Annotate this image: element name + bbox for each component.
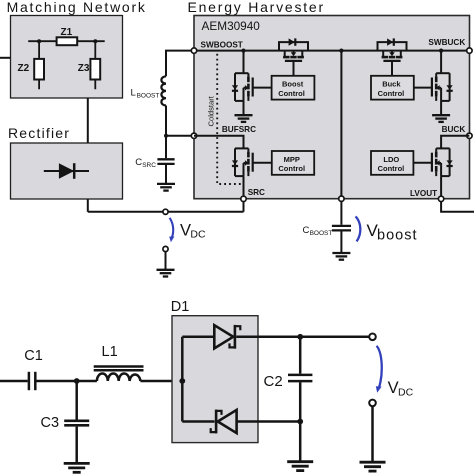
node CBOOST pin bbox=[339, 196, 344, 201]
brace Vboost blue bbox=[356, 216, 361, 241]
wire to ground buck bbox=[440, 101, 442, 115]
arrow VDC2 blue bbox=[377, 346, 382, 388]
node junction buck drain bbox=[439, 49, 443, 53]
capacitor C2 bbox=[288, 374, 312, 377]
svg-text:SWBUCK: SWBUCK bbox=[428, 38, 465, 47]
svg-text:AEM30940: AEM30940 bbox=[202, 19, 261, 33]
capacitor CBOOST bbox=[332, 225, 351, 227]
svg-text:Coldstart: Coldstart bbox=[206, 95, 215, 126]
wire to top diode bbox=[182, 336, 214, 339]
box Matching Network bbox=[11, 16, 123, 99]
wire top diode out bbox=[236, 336, 300, 339]
wire BUFSRC to MPP switch bbox=[194, 136, 244, 149]
wire VDC minus to ground bbox=[165, 252, 167, 270]
wire rectifier to DC rail bbox=[87, 199, 89, 212]
svg-text:C2: C2 bbox=[264, 373, 283, 390]
inductor LBOOST bbox=[161, 76, 166, 105]
svg-text:LVOUT: LVOUT bbox=[410, 189, 437, 198]
pin LVOUT bbox=[438, 196, 443, 201]
wire SWBOOST to inductor bbox=[166, 51, 191, 77]
pin SWBUCK bbox=[467, 48, 472, 53]
svg-text:D1: D1 bbox=[171, 299, 190, 315]
wire DC rail bbox=[88, 211, 244, 213]
svg-text:Z2: Z2 bbox=[18, 63, 30, 74]
inductor L1 bbox=[97, 373, 140, 381]
transistor LDO switch bbox=[413, 148, 453, 176]
node junction C2 bottom bbox=[297, 419, 303, 425]
resistor Z1 bbox=[57, 37, 78, 45]
svg-text:BOOST: BOOST bbox=[310, 230, 333, 237]
resistor Z3 bbox=[94, 41, 96, 89]
svg-text:SRC: SRC bbox=[142, 162, 156, 169]
transistor MPP switch bbox=[232, 148, 272, 176]
pin SWBOOST bbox=[191, 48, 196, 53]
wire C3 to ground bbox=[75, 427, 78, 464]
inductor L1 core bars bbox=[94, 365, 144, 368]
wire LDO switch to LVOUT bbox=[440, 176, 442, 199]
svg-text:Boost: Boost bbox=[282, 80, 304, 89]
svg-text:L1: L1 bbox=[102, 344, 118, 360]
wire C2 bottom bbox=[299, 382, 302, 421]
wire inductor to junction bbox=[165, 106, 167, 136]
svg-text:Matching Network: Matching Network bbox=[7, 0, 147, 15]
wire C1 to junction bbox=[37, 380, 97, 383]
box Boost Control bbox=[272, 76, 315, 100]
terminal VDC minus bbox=[163, 246, 168, 251]
ground CSRC bbox=[157, 184, 175, 191]
svg-text:Control: Control bbox=[378, 89, 405, 98]
node junction left bbox=[37, 39, 41, 43]
svg-text:Control: Control bbox=[278, 164, 305, 173]
box D1 bbox=[172, 316, 258, 443]
svg-text:Control: Control bbox=[278, 89, 305, 98]
transistor buck low-side bbox=[440, 51, 442, 74]
terminal VDC2 plus bbox=[369, 334, 376, 341]
svg-text:C: C bbox=[135, 157, 142, 168]
svg-text:Z1: Z1 bbox=[61, 27, 73, 38]
wire top rail SWBOOST to SWBUCK bbox=[194, 50, 469, 52]
pin BUCK bbox=[467, 133, 472, 138]
terminal VDC plus bbox=[163, 209, 168, 214]
svg-text:SRC: SRC bbox=[248, 188, 265, 197]
svg-text:Energy Harvester: Energy Harvester bbox=[188, 0, 325, 15]
coldstart dotted boundary bbox=[217, 54, 242, 184]
ground buck switch bbox=[432, 115, 450, 122]
svg-text:V: V bbox=[180, 221, 191, 239]
wire CSRC to ground bbox=[165, 165, 167, 184]
svg-text:L: L bbox=[131, 87, 136, 98]
svg-text:C: C bbox=[303, 225, 310, 236]
svg-text:Control: Control bbox=[378, 164, 405, 173]
wire to bottom diode bbox=[182, 420, 214, 423]
wire to VDC plus bbox=[300, 336, 369, 339]
node junction D1 input bbox=[179, 378, 185, 384]
svg-text:MPP: MPP bbox=[284, 155, 300, 164]
wire riser to SRC bbox=[243, 199, 245, 212]
wire VDC2 minus to ground bbox=[371, 406, 374, 462]
ground C2 bbox=[287, 462, 313, 471]
wire C2 top bbox=[299, 337, 302, 374]
ground VDC2 bbox=[360, 462, 386, 471]
wire D1 riser bbox=[181, 337, 184, 422]
wire L1 to D1 bbox=[140, 380, 182, 383]
terminal VDC2 minus bbox=[369, 400, 376, 407]
wire junction to CSRC bbox=[165, 136, 167, 158]
svg-text:BOOST: BOOST bbox=[137, 92, 160, 99]
diode D1 bottom (schottky) bbox=[211, 410, 237, 434]
box MPP Control bbox=[272, 151, 314, 175]
svg-text:BUCK: BUCK bbox=[442, 125, 466, 134]
svg-text:Z3: Z3 bbox=[78, 63, 90, 74]
capacitor C1 bbox=[28, 372, 31, 390]
capacitor CSRC bbox=[157, 158, 174, 160]
node junction center rail bbox=[339, 49, 343, 53]
svg-text:C1: C1 bbox=[24, 348, 43, 364]
node junction LBOOST/CSRC bbox=[164, 134, 168, 138]
wire C2 to ground bbox=[299, 422, 302, 462]
wire C3 branch bbox=[75, 381, 78, 420]
box Buck Control bbox=[371, 76, 414, 100]
wire bottom diode out bbox=[237, 420, 301, 423]
pin BUFSRC bbox=[191, 133, 196, 138]
svg-text:C3: C3 bbox=[41, 415, 60, 431]
wire junction to BUFSRC bbox=[166, 135, 191, 137]
node junction boost drain bbox=[241, 49, 245, 53]
wire CBOOST to ground bbox=[340, 232, 342, 254]
svg-text:SWBOOST: SWBOOST bbox=[201, 40, 243, 49]
transistor boost high-side bbox=[279, 38, 308, 75]
node junction C3 bbox=[74, 378, 80, 384]
ground VDC bbox=[157, 270, 175, 277]
wire input left bbox=[0, 380, 28, 383]
ground CBOOST bbox=[332, 253, 350, 260]
wire CBOOST bbox=[340, 201, 342, 224]
svg-text:DC: DC bbox=[190, 229, 206, 241]
ground C3 bbox=[64, 463, 90, 472]
wire to ground boost bbox=[243, 101, 245, 115]
node junction C2 top bbox=[297, 334, 303, 340]
node junction right bbox=[93, 39, 97, 43]
svg-text:Rectifier: Rectifier bbox=[8, 125, 70, 141]
wire center rail bbox=[340, 51, 342, 199]
arrow VDC blue bbox=[170, 218, 174, 238]
ground boost switch bbox=[235, 115, 253, 122]
wire LVOUT out bbox=[441, 202, 474, 212]
svg-text:Buck: Buck bbox=[382, 80, 401, 89]
wire MPP switch to SRC bbox=[243, 176, 245, 199]
transistor boost low-side bbox=[243, 51, 245, 74]
box Rectifier bbox=[11, 143, 123, 199]
svg-text:V: V bbox=[388, 379, 399, 397]
resistor Z2 bbox=[38, 41, 40, 89]
wire internal top bbox=[28, 40, 105, 42]
wire input port left bbox=[0, 57, 11, 59]
diode rectifier bbox=[44, 163, 89, 179]
box LDO Control bbox=[371, 151, 413, 175]
svg-text:DC: DC bbox=[398, 387, 414, 399]
diode D1 top (schottky) bbox=[214, 325, 240, 349]
svg-text:boost: boost bbox=[377, 228, 417, 244]
chip U1 AEM30940 box bbox=[194, 16, 470, 199]
svg-text:LDO: LDO bbox=[383, 155, 399, 164]
pin SRC bbox=[241, 196, 246, 201]
capacitor C3 bbox=[64, 419, 89, 422]
svg-text:BUFSRC: BUFSRC bbox=[222, 125, 256, 134]
wire matching to rectifier bbox=[87, 98, 89, 143]
wire BUCK to LDO switch bbox=[441, 136, 469, 149]
transistor buck high-side bbox=[378, 38, 407, 75]
